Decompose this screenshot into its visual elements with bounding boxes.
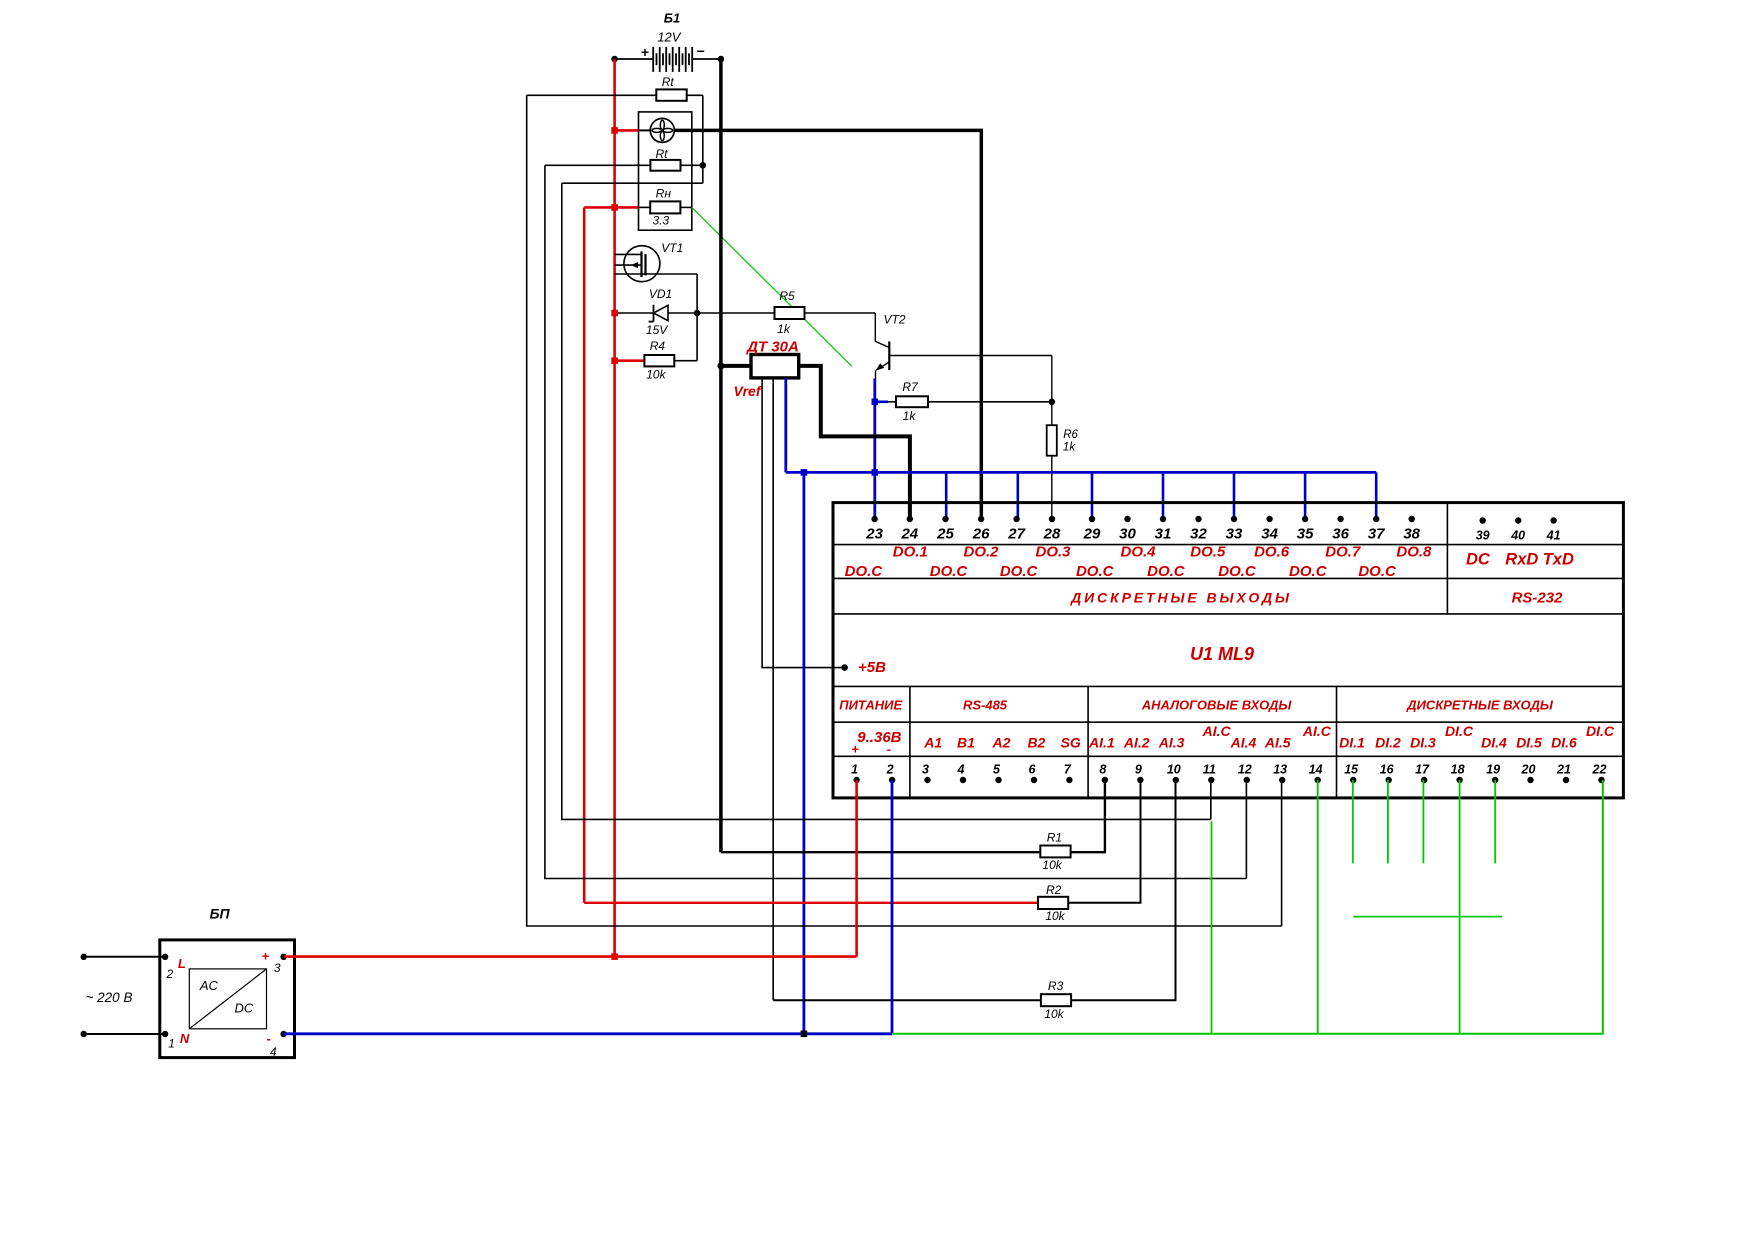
svg-text:9..36В: 9..36В [857,729,901,746]
node: DT left junction [717,362,724,369]
svg-text:12V: 12V [657,29,681,44]
svg-text:1: 1 [851,763,858,777]
wire: left loop y183 to pin11 [562,183,1211,819]
wire: green diagonal from Rn [692,207,852,366]
wire: VT2 emitter blue vertical to pin 23 [873,379,876,520]
wire: left loop Rt1 to pin13 [527,95,1282,926]
svg-text:L: L [178,956,186,971]
wire: VD1 node to R5 [697,312,774,314]
node: mains terminal bottom [81,1031,87,1037]
wire: green pin14 [1317,780,1319,1034]
wire: R4 to VD1 node vertical [696,313,698,361]
svg-text:DO.4: DO.4 [1120,544,1156,561]
svg-text:R6: R6 [1063,429,1078,441]
svg-text:31: 31 [1155,526,1172,543]
wire: horizontal y183 [562,182,703,184]
svg-text:A1: A1 [923,735,942,751]
svg-text:20: 20 [1521,763,1536,777]
svg-text:2: 2 [886,763,894,777]
svg-text:SG: SG [1061,735,1081,751]
svg-text:DO.7: DO.7 [1325,544,1361,561]
svg-text:10: 10 [1167,763,1181,777]
wire: battery minus thick vertical [719,59,723,852]
wire: DT lead2 to R3 [772,378,774,1000]
node: R7 blue junction [872,399,879,406]
svg-text:~ 220 В: ~ 220 В [86,990,133,1005]
svg-text:5: 5 [993,763,1001,777]
svg-text:18: 18 [1451,763,1465,777]
svg-text:AI.5: AI.5 [1264,735,1291,751]
svg-text:25: 25 [936,526,954,543]
resistor R1 10k [721,780,1105,872]
svg-text:-: - [887,742,891,757]
svg-text:R3: R3 [1048,979,1064,993]
svg-text:26: 26 [972,526,990,543]
svg-text:DO.C: DO.C [1358,563,1397,580]
svg-text:N: N [180,1031,190,1046]
svg-text:AC: AC [199,978,219,993]
svg-text:41: 41 [1546,529,1561,543]
resistor Rt (top) [527,75,703,101]
svg-text:1k: 1k [1063,442,1076,454]
svg-text:ПИТАНИЕ: ПИТАНИЕ [839,697,902,712]
wire: Rt1 right vertical [702,95,704,183]
wire: pin11 drop [1210,780,1212,819]
svg-text:+: + [851,742,859,757]
svg-text:40: 40 [1510,529,1525,543]
svg-text:1k: 1k [903,409,917,423]
pins 39-41 [1476,517,1561,542]
svg-text:33: 33 [1226,526,1243,543]
svg-text:34: 34 [1261,526,1278,543]
svg-text:3.3: 3.3 [652,214,669,228]
svg-text:32: 32 [1190,526,1207,543]
svg-text:R5: R5 [779,289,795,303]
power supply BP [160,906,295,1059]
wire: pin13 drop [1281,780,1283,926]
svg-text:10k: 10k [646,367,666,381]
wire: green horizontal segment [1353,916,1502,918]
DO labels row [845,544,1432,580]
svg-text:ДТ 30А: ДТ 30А [745,339,799,356]
svg-text:TxD: TxD [1543,551,1574,569]
svg-text:DO.C: DO.C [845,563,884,580]
wire: blue bus [786,471,1376,474]
svg-text:DO.C: DO.C [1000,563,1039,580]
node: R4 red junction [611,357,618,364]
svg-text:28: 28 [1043,526,1061,543]
wire: BP plus red to pin1 [284,955,857,958]
U1 ML9 main block [833,503,1623,798]
wire: green stub pin15 [1352,780,1354,863]
wire: blue vertical to BP minus [803,472,806,1033]
svg-text:13: 13 [1273,763,1287,777]
svg-text:11: 11 [1203,763,1216,777]
svg-text:27: 27 [1007,526,1025,543]
svg-text:29: 29 [1083,526,1101,543]
resistor R7 1k [875,380,1052,423]
svg-text:23: 23 [865,526,883,543]
svg-text:AI.2: AI.2 [1123,735,1150,751]
svg-text:DO.C: DO.C [1147,563,1186,580]
svg-text:AI.C: AI.C [1302,723,1332,739]
wire: DT lead1 to +5B [762,378,845,668]
svg-text:4: 4 [957,763,965,777]
svg-text:АНАЛОГОВЫЕ ВХОДЫ: АНАЛОГОВЫЕ ВХОДЫ [1141,697,1293,712]
svg-text:DO.5: DO.5 [1190,544,1226,561]
svg-text:DI.4: DI.4 [1481,735,1507,751]
svg-text:10k: 10k [1042,858,1062,872]
svg-text:7: 7 [1064,763,1072,777]
svg-text:+5B: +5B [858,659,886,676]
wire: blue drop pin35 [1304,472,1307,519]
svg-text:VD1: VD1 [649,287,672,301]
svg-text:DI.6: DI.6 [1551,735,1577,751]
svg-text:ДИСКРЕТНЫЕ ВХОДЫ: ДИСКРЕТНЫЕ ВХОДЫ [1406,697,1554,712]
svg-text:RS-232: RS-232 [1512,590,1564,607]
svg-text:AI.C: AI.C [1202,723,1232,739]
node: R6 top junction [1049,399,1056,406]
svg-text:1: 1 [168,1036,175,1050]
svg-text:16: 16 [1380,763,1395,777]
current sensor DT 30A [721,339,910,520]
wire: green stub pin19 [1494,780,1496,863]
svg-text:10k: 10k [1045,909,1065,923]
top pins 23-38 [865,516,1420,543]
wire: green pin18 [1459,780,1461,1034]
svg-text:AI.3: AI.3 [1158,735,1185,751]
svg-text:15V: 15V [646,323,668,337]
node: +5B dot [841,664,848,671]
node: VD1 cathode-side junction [694,310,701,317]
svg-text:DO.C: DO.C [1289,563,1328,580]
svg-text:DO.1: DO.1 [893,544,928,561]
wire: BP minus blue to pin2 [284,1032,892,1035]
resistor R5 1k [775,289,876,336]
fan M [616,118,674,142]
svg-text:DC: DC [1466,551,1491,569]
svg-text:ДИСКРЕТНЫЕ ВЫХОДЫ: ДИСКРЕТНЫЕ ВЫХОДЫ [1070,590,1292,606]
svg-text:Vref: Vref [734,383,762,399]
svg-text:DO.2: DO.2 [963,544,999,561]
svg-text:3: 3 [274,961,281,975]
wire: blue drop pin27 [1016,472,1019,519]
svg-text:21: 21 [1556,763,1571,777]
resistor Rt (in module) [545,147,703,171]
zener diode VD1 15V [615,287,698,337]
node: VD1 red junction [611,310,618,317]
svg-text:DI.C: DI.C [1586,723,1615,739]
svg-text:15: 15 [1344,763,1359,777]
svg-text:DO.C: DO.C [930,563,969,580]
wire: pin12 drop [1245,780,1247,879]
transistor VT2 [875,313,1052,379]
svg-text:24: 24 [900,526,918,543]
svg-text:8: 8 [1099,763,1106,777]
battery B1 [615,11,721,72]
wire: blue drop pin29 [1091,472,1094,519]
wire: blue drop pin33 [1233,472,1236,519]
svg-text:DI.1: DI.1 [1339,735,1365,751]
wire: green stub pin16 [1387,780,1389,863]
wire: blue drop pin37 [1375,472,1378,519]
wire: green ground bus [892,780,1603,1034]
wire: blue drop pin25 [945,472,948,519]
svg-text:DO.6: DO.6 [1254,544,1290,561]
svg-text:БП: БП [210,906,231,922]
svg-text:DC: DC [235,1001,254,1016]
wire: red vertical to R2 [583,207,586,902]
svg-text:3: 3 [922,763,929,777]
svg-text:DI.2: DI.2 [1375,735,1401,751]
wire: +12V red vertical rail [613,59,616,957]
svg-text:−: − [696,43,704,59]
resistor R2 10k [584,780,1140,923]
svg-text:9: 9 [1135,763,1142,777]
heater module box [639,112,692,230]
svg-text:38: 38 [1403,526,1420,543]
svg-text:DO.C: DO.C [1076,563,1115,580]
svg-text:22: 22 [1592,763,1607,777]
svg-text:2: 2 [166,967,174,981]
svg-text:AI.4: AI.4 [1230,735,1257,751]
node: red junction at x614 [611,953,618,960]
node: battery left junction [611,56,618,63]
svg-text:VT2: VT2 [883,313,905,327]
svg-text:VT1: VT1 [661,241,683,255]
svg-text:R2: R2 [1046,883,1062,897]
wire: DT lead3 blue down [784,378,787,473]
wire: mains input top [84,956,165,958]
svg-text:17: 17 [1415,763,1430,777]
svg-text:U1 ML9: U1 ML9 [1190,644,1254,664]
svg-text:DI.5: DI.5 [1516,735,1542,751]
node: battery right junction [718,56,725,63]
bottom pins 1-22 [851,763,1606,784]
node: blue junction at x804 [801,1031,808,1038]
svg-text:RxD: RxD [1505,551,1538,569]
svg-text:Rt: Rt [656,147,669,161]
svg-text:14: 14 [1309,763,1323,777]
svg-text:+: + [262,949,270,964]
wire: green vertical x1211 [1211,821,1213,1033]
svg-text:37: 37 [1368,526,1385,543]
wire: fan output thick to pin26 [674,130,981,519]
node: blue bus junction at x804 [801,469,808,476]
wire: blue drop pin31 [1162,472,1165,519]
svg-text:35: 35 [1297,526,1314,543]
svg-text:R4: R4 [650,339,666,353]
svg-text:B2: B2 [1027,735,1045,751]
wire: VT2 collector corner down [1051,356,1053,426]
svg-text:B1: B1 [957,735,975,751]
wire: left loop Rt2 to pin12 [545,165,1247,878]
node: Rn red junction [611,204,618,211]
transistor VT1 (MOSFET) [615,241,698,282]
svg-text:DI.3: DI.3 [1410,735,1436,751]
svg-text:Rt: Rt [662,75,675,89]
svg-text:A2: A2 [992,735,1011,751]
wire: green stub pin17 [1422,780,1424,863]
resistor R3 10k [773,780,1175,1021]
svg-text:36: 36 [1332,526,1349,543]
svg-text:RS-485: RS-485 [963,697,1008,712]
wire: pin2 blue [891,780,894,1034]
svg-text:39: 39 [1476,529,1490,543]
resistor R4 10k [615,339,698,382]
svg-text:DO.8: DO.8 [1396,544,1432,561]
svg-text:30: 30 [1119,526,1136,543]
node: fan red junction [611,127,618,134]
svg-text:19: 19 [1486,763,1500,777]
resistor R6 1k [1047,425,1079,519]
svg-text:R1: R1 [1047,831,1062,845]
node: mains terminal top [81,954,87,960]
svg-text:4: 4 [270,1045,277,1059]
svg-text:-: - [267,1031,271,1046]
svg-text:12: 12 [1238,763,1252,777]
svg-text:R7: R7 [902,380,919,394]
svg-text:DO.3: DO.3 [1035,544,1071,561]
wire: pin1 red [855,780,858,957]
svg-text:Rн: Rн [656,187,672,201]
svg-text:Б1: Б1 [664,11,680,26]
svg-text:1k: 1k [777,322,791,336]
wire: VT1 to VD1 node [696,274,698,313]
svg-text:10k: 10k [1044,1007,1064,1021]
svg-text:AI.1: AI.1 [1088,735,1115,751]
svg-text:6: 6 [1029,763,1037,777]
resistor RH 3.3 [584,187,692,228]
node: blue bus junction at x875 [872,469,879,476]
svg-text:DO.C: DO.C [1218,563,1257,580]
svg-text:DI.C: DI.C [1445,723,1474,739]
wire: mains input bottom [84,1033,165,1035]
node: Rt2 right junction [700,162,707,169]
svg-text:+: + [641,44,649,60]
